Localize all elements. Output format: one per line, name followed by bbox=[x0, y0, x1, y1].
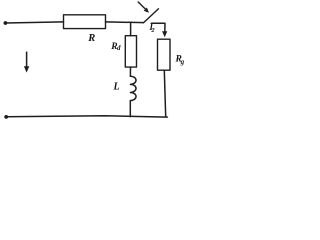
svg-text:R: R bbox=[87, 33, 95, 44]
svg-text:d: d bbox=[117, 44, 121, 52]
svg-text:2: 2 bbox=[150, 27, 155, 34]
svg-text:L: L bbox=[113, 82, 120, 93]
svg-text:g: g bbox=[180, 58, 185, 66]
